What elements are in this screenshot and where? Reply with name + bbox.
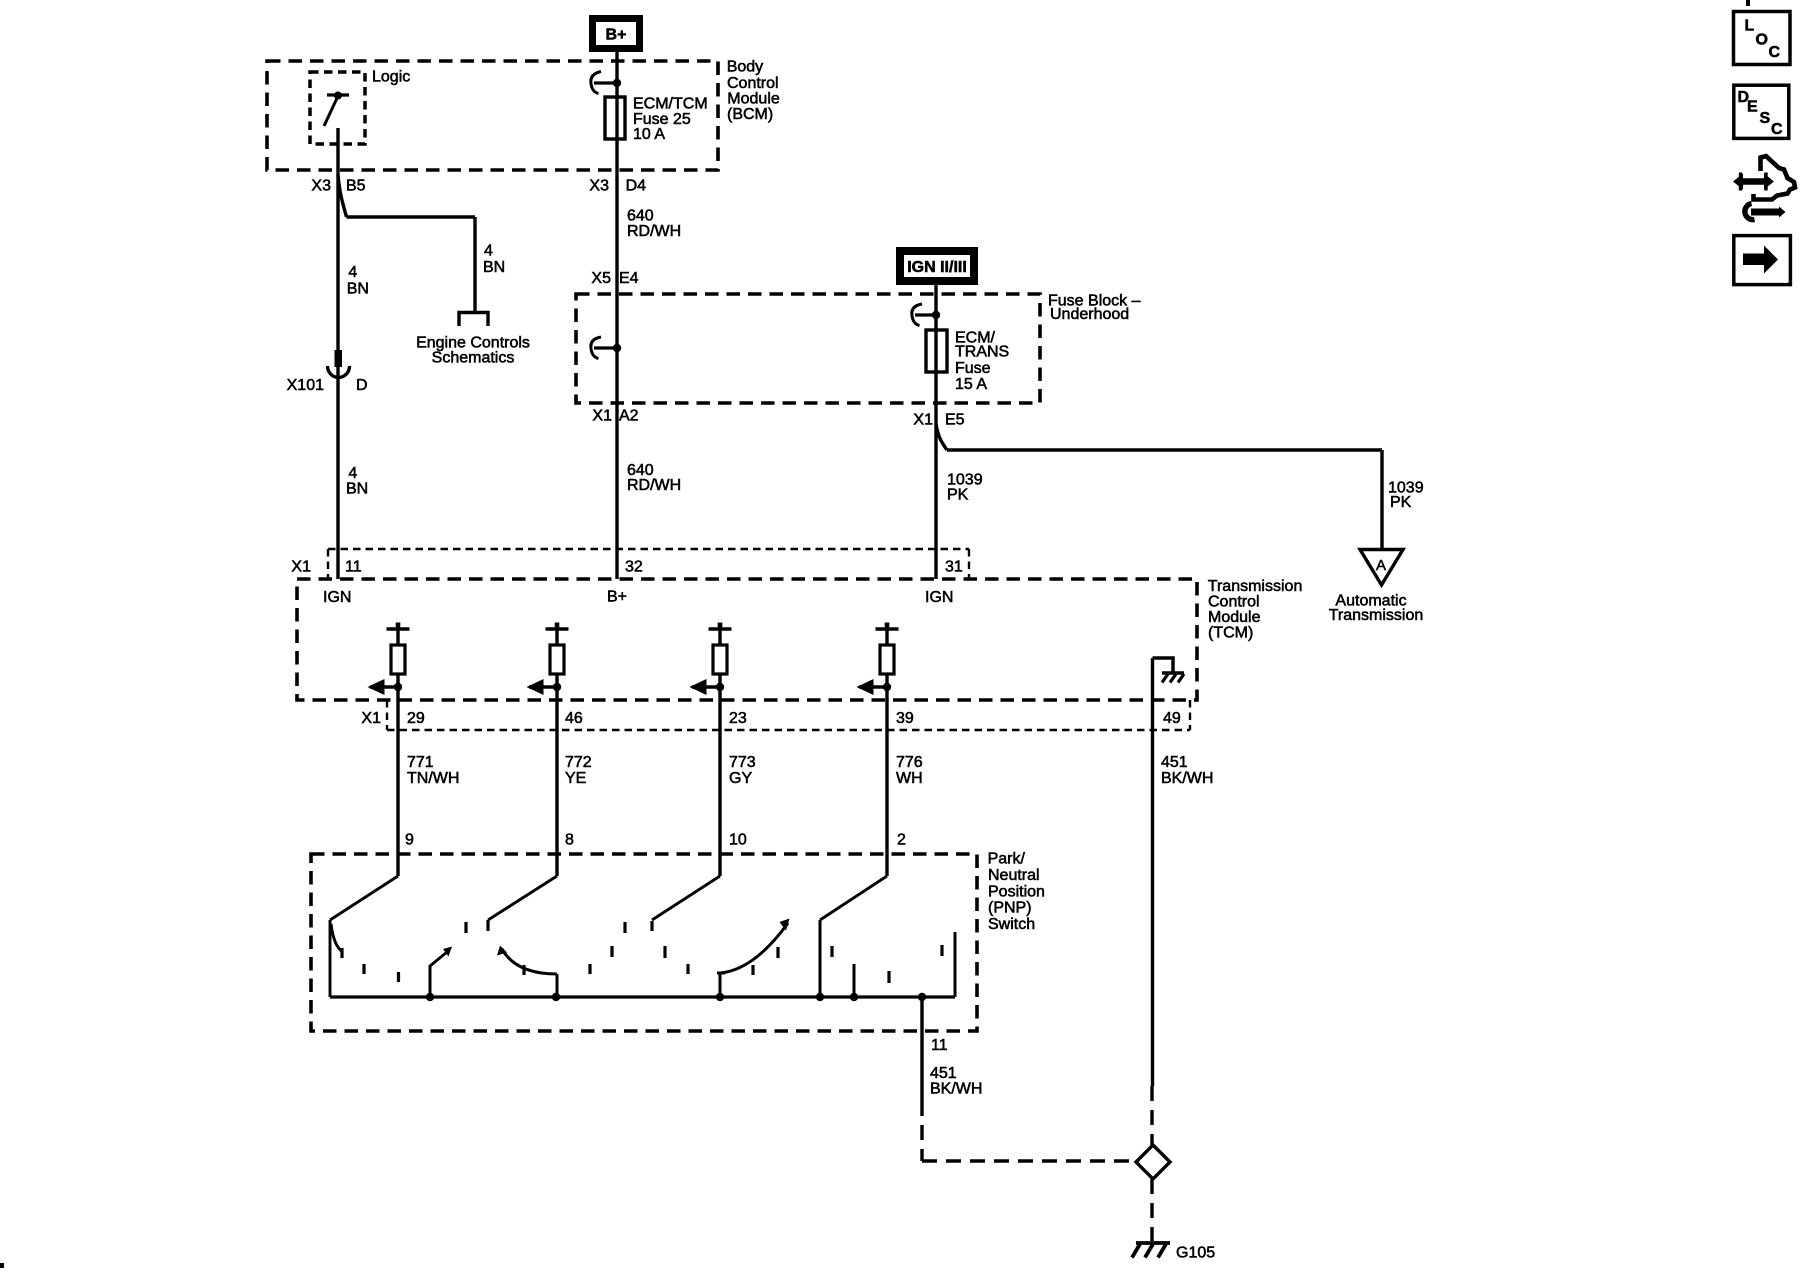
- svg-text:772: 772: [565, 754, 592, 771]
- svg-text:771: 771: [407, 754, 434, 771]
- svg-text:E4: E4: [619, 270, 639, 287]
- svg-text:451: 451: [1161, 754, 1188, 771]
- svg-text:A: A: [1376, 557, 1386, 574]
- svg-text:32: 32: [625, 559, 643, 576]
- svg-text:PK: PK: [947, 487, 969, 504]
- svg-text:10 A: 10 A: [633, 126, 665, 143]
- svg-text:8: 8: [565, 832, 574, 849]
- svg-text:B+: B+: [606, 27, 627, 44]
- svg-text:BK/WH: BK/WH: [1161, 770, 1213, 787]
- svg-text:X101: X101: [287, 377, 324, 394]
- svg-text:Control: Control: [727, 75, 779, 92]
- svg-text:X1: X1: [913, 412, 933, 429]
- svg-text:49: 49: [1163, 710, 1181, 727]
- svg-text:46: 46: [565, 710, 583, 727]
- svg-text:YE: YE: [565, 770, 586, 787]
- svg-text:23: 23: [729, 710, 747, 727]
- svg-text:Underhood: Underhood: [1050, 306, 1129, 323]
- svg-text:D: D: [356, 377, 368, 394]
- svg-text:640: 640: [627, 208, 654, 225]
- svg-text:G105: G105: [1176, 1245, 1215, 1262]
- svg-text:15 A: 15 A: [955, 376, 987, 393]
- svg-text:BN: BN: [483, 259, 505, 276]
- svg-text:773: 773: [729, 754, 756, 771]
- svg-text:31: 31: [945, 559, 963, 576]
- svg-text:Schematics: Schematics: [432, 350, 515, 367]
- svg-text:X3: X3: [311, 178, 331, 195]
- svg-text:IGN II/III: IGN II/III: [907, 259, 967, 276]
- svg-text:ECM/TCM: ECM/TCM: [633, 96, 708, 113]
- svg-text:2: 2: [897, 832, 906, 849]
- svg-text:11: 11: [931, 1037, 948, 1054]
- svg-text:RD/WH: RD/WH: [627, 223, 681, 240]
- svg-text:BN: BN: [347, 280, 369, 297]
- svg-text:Control: Control: [1208, 594, 1260, 611]
- svg-text:TN/WH: TN/WH: [407, 770, 459, 787]
- svg-text:Logic: Logic: [372, 69, 410, 86]
- svg-text:WH: WH: [896, 770, 923, 787]
- svg-text:Park/: Park/: [988, 850, 1026, 867]
- svg-text:L: L: [1745, 18, 1755, 35]
- svg-text:IGN: IGN: [323, 589, 351, 606]
- svg-text:Neutral: Neutral: [988, 867, 1040, 884]
- svg-text:(PNP): (PNP): [988, 900, 1032, 917]
- svg-text:11: 11: [345, 559, 362, 576]
- svg-text:9: 9: [405, 832, 414, 849]
- svg-text:BN: BN: [346, 481, 368, 498]
- svg-text:Transmission: Transmission: [1329, 607, 1424, 624]
- svg-text:C: C: [1771, 121, 1783, 138]
- svg-text:Body: Body: [727, 59, 763, 76]
- svg-text:Transmission: Transmission: [1208, 578, 1303, 595]
- svg-text:D4: D4: [626, 178, 647, 195]
- svg-text:10: 10: [729, 832, 747, 849]
- svg-text:S: S: [1760, 110, 1771, 127]
- svg-text:GY: GY: [729, 770, 752, 787]
- svg-text:4: 4: [348, 465, 357, 482]
- svg-text:IGN: IGN: [925, 589, 953, 606]
- svg-text:776: 776: [896, 754, 923, 771]
- svg-text:Switch: Switch: [988, 916, 1035, 933]
- svg-text:Fuse: Fuse: [955, 360, 991, 377]
- svg-text:B+: B+: [607, 589, 627, 606]
- svg-text:X3: X3: [589, 178, 609, 195]
- svg-text:X1: X1: [361, 710, 381, 727]
- svg-text:E: E: [1747, 98, 1758, 115]
- svg-text:TRANS: TRANS: [955, 343, 1009, 360]
- svg-text:451: 451: [930, 1065, 957, 1082]
- svg-text:A2: A2: [619, 408, 639, 425]
- svg-text:Position: Position: [988, 883, 1045, 900]
- svg-text:X5: X5: [591, 270, 611, 287]
- svg-text:PK: PK: [1390, 494, 1412, 511]
- svg-text:X1: X1: [291, 559, 311, 576]
- svg-text:C: C: [1769, 44, 1781, 61]
- svg-text:(BCM): (BCM): [727, 106, 773, 123]
- svg-text:4: 4: [348, 264, 357, 281]
- svg-text:RD/WH: RD/WH: [627, 477, 681, 494]
- svg-text:E5: E5: [945, 412, 965, 429]
- svg-text:B5: B5: [346, 178, 366, 195]
- svg-text:X1: X1: [592, 408, 612, 425]
- svg-text:BK/WH: BK/WH: [930, 1081, 982, 1098]
- svg-text:29: 29: [407, 710, 425, 727]
- svg-text:4: 4: [484, 243, 493, 260]
- svg-text:39: 39: [896, 710, 914, 727]
- svg-text:Module: Module: [1208, 609, 1261, 626]
- svg-text:(TCM): (TCM): [1208, 625, 1253, 642]
- svg-text:O: O: [1756, 32, 1768, 49]
